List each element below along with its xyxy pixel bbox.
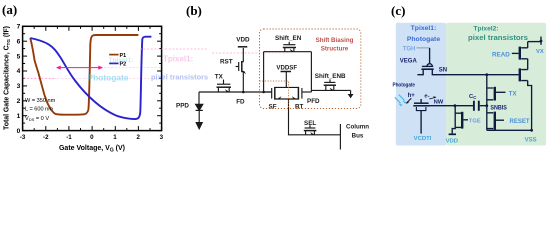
plot frame <box>23 26 162 130</box>
curve P1 <box>30 35 138 115</box>
transistor TX <box>486 75 488 100</box>
svg-text:TX: TX <box>509 91 517 97</box>
wire: left drop to SF gate <box>263 52 265 92</box>
power VDD bar <box>449 133 456 135</box>
wire: SF-BT rails <box>275 86 299 88</box>
svg-text:VDDSF: VDDSF <box>276 65 297 72</box>
photogate G1 (transfer gate symbol) <box>429 48 431 64</box>
transistor BT <box>301 88 303 99</box>
svg-text:-1: -1 <box>66 134 72 141</box>
node FD junction dot <box>242 91 245 94</box>
transistor SF2 (gate from SN) <box>518 74 520 76</box>
svg-text:Tpixel1:: Tpixel1: <box>163 55 193 64</box>
svg-text:VDS = 0 V: VDS = 0 V <box>25 116 49 122</box>
svg-text:-2: -2 <box>43 134 49 141</box>
svg-text:(c): (c) <box>391 3 405 18</box>
svg-text:Bus: Bus <box>352 133 364 140</box>
svg-text:Shift Biasing: Shift Biasing <box>316 37 354 44</box>
svg-text:0: 0 <box>90 134 94 141</box>
svg-text:FD: FD <box>236 98 245 105</box>
svg-text:Photogate: Photogate <box>88 74 130 83</box>
svg-text:2: 2 <box>136 134 140 141</box>
svg-text:TX: TX <box>215 73 224 80</box>
node SN junction dot <box>485 73 488 76</box>
column bus line <box>339 124 341 150</box>
arrow to PFD pulldown <box>350 90 352 94</box>
wire VSS row <box>487 129 532 131</box>
svg-text:Gate Voltage, VG (V): Gate Voltage, VG (V) <box>59 145 125 154</box>
Tpixel1 blue box <box>396 23 446 146</box>
svg-text:BT: BT <box>295 104 304 111</box>
transistor TGE <box>454 106 456 128</box>
svg-text:Tpixel1:: Tpixel1: <box>411 25 437 32</box>
svg-text:3: 3 <box>160 134 164 141</box>
arrow e- <box>429 98 435 100</box>
svg-text:W = 350 nm: W = 350 nm <box>25 98 56 104</box>
svg-text:VDD: VDD <box>236 36 250 43</box>
annotation W/L/Vds <box>25 98 56 122</box>
svg-text:5: 5 <box>17 53 21 60</box>
axis ticks <box>23 26 162 130</box>
svg-text:VSS: VSS <box>525 138 537 144</box>
magenta double arrow <box>57 66 103 70</box>
svg-text:SF: SF <box>269 104 277 111</box>
transistor Shift_ENB <box>329 79 331 82</box>
svg-text:2: 2 <box>17 98 21 105</box>
transistor SEL <box>309 125 311 128</box>
svg-text:PPD: PPD <box>176 103 189 110</box>
arrow h+ <box>407 98 411 102</box>
node SF gate dot <box>262 91 265 94</box>
svg-text:SN: SN <box>439 67 447 73</box>
svg-text:Photogate: Photogate <box>393 82 416 88</box>
ground arrow under PPD <box>196 123 202 129</box>
svg-text:NW: NW <box>434 99 444 105</box>
svg-text:Photogate: Photogate <box>407 36 440 43</box>
transistor READ <box>512 52 519 54</box>
light arrows <box>395 95 406 107</box>
svg-text:h+: h+ <box>408 93 416 99</box>
svg-text:SNBIS: SNBIS <box>490 106 507 112</box>
svg-text:(b): (b) <box>186 3 202 18</box>
svg-text:Total Gate Capacitance, CTG (f: Total Gate Capacitance, CTG (fF) <box>4 26 11 130</box>
svg-text:6: 6 <box>17 38 21 45</box>
svg-text:READ: READ <box>492 52 510 59</box>
svg-text:SEL: SEL <box>304 120 316 127</box>
svg-text:4: 4 <box>17 68 21 75</box>
svg-text:RST: RST <box>220 59 233 66</box>
svg-text:Structure: Structure <box>321 45 349 52</box>
wire: diode stem <box>198 92 200 104</box>
wire: Shift_EN row <box>264 51 312 53</box>
svg-text:-3: -3 <box>20 134 26 141</box>
legend P1 <box>109 54 118 56</box>
wire: PPD to TX to FD row <box>199 91 272 93</box>
x tick labels <box>20 134 164 141</box>
svg-text:Tpixel2:: Tpixel2: <box>474 25 499 32</box>
node SNBIS junction dot <box>485 104 488 107</box>
svg-text:0: 0 <box>17 128 21 135</box>
transistor RST <box>238 62 240 71</box>
svg-text:3: 3 <box>17 83 21 90</box>
transistor TX <box>223 80 225 85</box>
wire VX node <box>528 41 541 43</box>
transistor RESET <box>486 106 488 131</box>
svg-text:VX: VX <box>536 49 544 55</box>
svg-text:(a): (a) <box>2 2 17 17</box>
wire: PFD to SEL row <box>289 99 341 135</box>
svg-text:Column: Column <box>346 124 369 131</box>
legend P2 <box>109 62 118 64</box>
svg-text:pixel transistors: pixel transistors <box>468 35 528 42</box>
photogate G2 (main photogate) <box>420 99 422 103</box>
svg-text:CC: CC <box>469 94 476 100</box>
svg-text:7: 7 <box>17 24 21 31</box>
power VDD bar <box>238 46 248 48</box>
svg-text:RESET: RESET <box>510 119 530 125</box>
svg-text:L = 600 nm: L = 600 nm <box>25 107 53 113</box>
ghost dashed line y=67.6 <box>104 67 161 69</box>
svg-text:Shift_EN: Shift_EN <box>275 35 302 42</box>
Tpixel2 green box <box>446 23 546 146</box>
svg-text:pixel transistors: pixel transistors <box>151 73 208 82</box>
dashed red box Shift Biasing Structure <box>260 29 361 109</box>
svg-text:PFD: PFD <box>307 98 320 105</box>
svg-text:TGH: TGH <box>403 46 416 52</box>
svg-text:1: 1 <box>113 134 117 141</box>
svg-text:TGE: TGE <box>469 118 481 124</box>
wire TGH to gate <box>417 47 430 49</box>
wire NW row to capacitor <box>430 105 473 107</box>
wire node SN row <box>438 74 519 76</box>
node NW junction dot <box>454 104 457 107</box>
ghost pink dashes <box>140 48 207 50</box>
transistor SF <box>271 88 273 99</box>
svg-text:VEGA: VEGA <box>400 58 418 64</box>
wire: Shift_ENB row <box>311 89 348 91</box>
photodiode PPD <box>196 104 203 110</box>
svg-text:e-: e- <box>424 94 429 100</box>
svg-text:VDD: VDD <box>446 139 458 145</box>
svg-text:Shift_ENB: Shift_ENB <box>315 73 346 80</box>
node VSS dot <box>530 129 533 132</box>
curve P2 <box>30 37 151 119</box>
wire: right drop to PFD row <box>310 52 312 92</box>
svg-text:1: 1 <box>17 113 21 120</box>
ghost dashed line y=78.4 <box>24 77 55 79</box>
capacitor CC <box>473 101 475 111</box>
svg-text:Tpixel1:: Tpixel1: <box>109 57 134 64</box>
transistor Shift_EN <box>288 42 290 45</box>
y tick labels <box>17 24 21 135</box>
power VDDSF bar <box>281 71 292 73</box>
svg-text:VCDTI: VCDTI <box>414 136 432 142</box>
red dotted bias wire <box>260 81 289 109</box>
wire TX to SNBIS <box>486 100 488 106</box>
